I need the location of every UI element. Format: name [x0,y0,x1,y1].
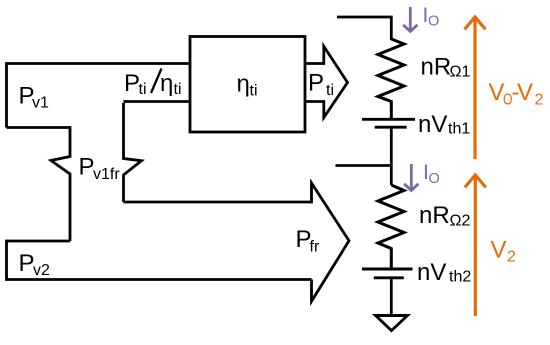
wire: flow channel outline top edge P_v1 to box [7,64,191,128]
svg-text:V: V [491,237,507,264]
wire: bottom-left arm P_v2 [7,241,312,280]
svg-text:ti: ti [250,83,258,100]
svg-text:ti: ti [139,81,147,98]
svg-text:η: η [237,71,250,98]
wire: channel top edge to P_fr arrow [124,201,312,204]
wire: P_ti/eta channel bottom edge [124,100,191,103]
svg-text:2: 2 [535,92,544,109]
battery nV_th2 long plate [362,268,413,271]
svg-text:ti: ti [174,81,182,98]
wire: left wall of descending channel with break [51,126,70,241]
svg-text:2: 2 [507,249,516,266]
svg-text:ti: ti [326,82,334,99]
block arrow P_ti [305,46,348,117]
wire: battery2 to ground [390,278,393,315]
label V_O-V_2 [489,79,544,109]
battery nV_th1 long plate [362,118,415,121]
svg-text:P: P [308,70,324,97]
wire: right wall of descending channel with break [124,103,142,202]
svg-text:V: V [517,79,533,106]
resistor nR_O1 [378,39,404,118]
wire: middle node horizontal [336,164,392,167]
svg-text:nV: nV [418,111,447,138]
svg-text:v1: v1 [32,95,49,112]
svg-text:nR: nR [419,202,450,229]
svg-text:η: η [160,70,173,97]
svg-text:O: O [429,171,440,187]
resistor nR_O2 [378,185,404,268]
ground [376,316,408,331]
label V_2 [491,237,517,266]
svg-text:th2: th2 [449,269,471,286]
voltage arrow V_2 (orange) [465,175,486,316]
svg-text:O: O [428,14,439,30]
wire: top wire of circuit [337,17,391,40]
svg-text:fr: fr [310,239,320,256]
current arrow I_O top (purple) [403,7,417,32]
wire: P_v1 channel bottom edge [7,126,71,129]
svg-text:v1fr: v1fr [93,166,120,183]
battery nV_th2 short plate [374,276,404,279]
voltage arrow V_O-V_2 (orange) [465,17,486,159]
block arrow P_fr head [310,183,349,301]
svg-text:Ω1: Ω1 [450,64,471,81]
battery nV_th1 short plate [375,126,407,129]
svg-text:nR: nR [421,54,452,81]
svg-text:th1: th1 [448,121,470,138]
svg-text:v2: v2 [33,262,50,279]
box U1 eta_ti [190,37,305,133]
svg-text:nV: nV [417,259,446,286]
svg-text:Ω2: Ω2 [450,213,471,230]
current arrow I_O bottom (purple) [404,164,418,191]
wire: battery1 to middle node [390,127,393,185]
